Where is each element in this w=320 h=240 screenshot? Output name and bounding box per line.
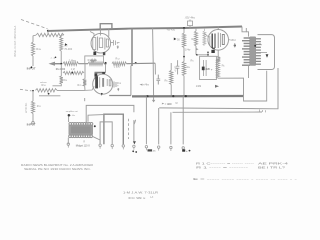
svg-text:4 MF.: 4 MF.	[175, 65, 178, 71]
svg-text:1-M J.A.W. 7-31LR: 1-M J.A.W. 7-31LR	[123, 190, 159, 194]
label 1/2M with arrow	[196, 85, 219, 88]
mark dark at post 9	[182, 149, 190, 153]
transformer T1 power winding body	[69, 125, 94, 136]
svg-text:INPUT: INPUT	[27, 123, 36, 127]
svg-text:+: +	[186, 149, 188, 153]
vertical text margin note (upper left)	[14, 25, 17, 57]
terminal pins below	[68, 145, 183, 151]
node L	[185, 95, 187, 97]
wire stage2 frame right	[130, 66, 132, 96]
svg-text:BE I TR L?: BE I TR L?	[258, 165, 286, 169]
mark dark pair at post 5	[132, 150, 137, 153]
node C tap on R10 output	[48, 93, 50, 95]
svg-text:1/4w: 1/4w	[185, 48, 190, 51]
vertical text note beside R11	[25, 102, 28, 113]
label Sp	[259, 43, 263, 46]
wire second input drop	[32, 91, 34, 101]
wire stub node A to grid resistor	[47, 31, 49, 35]
resistor R24 below bus	[60, 64, 63, 84]
wire V2 grid lead	[85, 87, 94, 91]
resistor R15 on return bus	[112, 62, 127, 66]
transformer T1 secondary loops (bottom)	[69, 135, 93, 138]
wire T1 bottom right lead	[92, 136, 100, 144]
node M primary dot	[94, 125, 96, 127]
wire plate to output transformer	[242, 27, 249, 37]
block dark V2 top cap	[102, 72, 105, 74]
wire chain to ground bus	[183, 76, 185, 96]
wire T2 bottom lead	[248, 66, 250, 78]
node J	[146, 95, 148, 97]
ground chassis at V1 cathode	[117, 46, 119, 50]
resistor R14 on return bus	[88, 62, 104, 66]
node I secondary tap	[254, 45, 256, 47]
label 110V line	[76, 144, 91, 147]
wire screen feed vertical	[153, 28, 154, 96]
wire R21 bottom	[196, 46, 198, 56]
wire V1 grid from grid cap	[90, 32, 94, 37]
svg-text:1 M: 1 M	[71, 69, 75, 71]
wire T1 top-right lead over to post 5	[86, 105, 134, 123]
svg-text:PANEL #1 DET. 1930 SCALA: PANEL #1 DET. 1930 SCALA	[14, 25, 17, 57]
wire bias link	[197, 52, 209, 56]
wire T1 bottom left lead	[67, 138, 69, 144]
label R24	[63, 79, 68, 82]
wire return bus right segment	[127, 62, 156, 65]
wire V1 cathode lead to bypass	[111, 42, 114, 44]
tube V3 plate top lead	[217, 26, 219, 29]
wire V2 grid post	[94, 72, 96, 79]
label arrow 50	[174, 38, 181, 42]
resistor R7 input shunt (vertical, left)	[31, 42, 34, 56]
parts list row 1	[196, 161, 289, 165]
svg-text:FC 99 x: FC 99 x	[128, 196, 146, 200]
wire R10 to stage 2	[57, 89, 85, 91]
node E2 plate feed junction	[105, 62, 107, 64]
wire U-link posts 2-3	[100, 122, 112, 144]
label +B 450	[167, 28, 176, 32]
terminal posts strip	[67, 143, 184, 149]
label 1/4w	[185, 48, 199, 51]
mark dark at post 6	[148, 149, 156, 152]
arrow dark at post 5	[133, 141, 136, 144]
transformer T2 primary teeth (left)	[242, 38, 250, 65]
tick marks on output line	[260, 110, 266, 113]
wire B+ bus (thick, top)	[48, 27, 242, 31]
vacuum tube V2 envelope	[93, 74, 113, 94]
svg-text:at 500 KC.: at 500 KC.	[25, 102, 28, 113]
node F	[135, 62, 137, 64]
svg-text:M: M	[176, 102, 178, 105]
svg-text:Midget 110 V.: Midget 110 V.	[76, 144, 91, 147]
resistor R24 bias (small, under V3)	[217, 56, 220, 62]
resistor R22 (light, next)	[203, 28, 206, 46]
tube V3 grid entry	[205, 34, 209, 37]
label 4MF rotated	[175, 65, 178, 71]
svg-text:2 Meg.: 2 Meg.	[69, 59, 77, 62]
resistor R6 bleeder (vertical mid)	[170, 63, 173, 96]
label MFD	[229, 39, 236, 42]
tube V2 internal dark cathode block	[95, 74, 98, 89]
wire grid network drop	[84, 64, 86, 91]
wire ground bus (thick)	[132, 95, 244, 98]
svg-text:L 300: L 300	[114, 66, 121, 69]
label E 400	[162, 102, 172, 106]
svg-text:+: +	[117, 41, 119, 45]
svg-text:+B 450: +B 450	[167, 28, 176, 32]
node D on return bus	[60, 63, 62, 65]
svg-text:h. Hv.: h. Hv.	[70, 115, 76, 117]
wire V2 bottom lead	[101, 93, 103, 96]
wire return bus drop to ground bus	[154, 63, 156, 74]
capacitor C10 electrolytic can (boxed)	[200, 56, 217, 79]
tube V1 base dark pins	[93, 52, 105, 56]
label +/4 kv with arrow	[140, 83, 150, 86]
label R12 above	[116, 57, 121, 60]
svg-text:1/2M: 1/2M	[196, 85, 202, 88]
label R6	[165, 79, 169, 83]
label INPUT terminal 1	[27, 66, 36, 70]
node E	[104, 63, 106, 65]
wire stub above ladder	[84, 98, 86, 101]
wire dashed lead second input	[20, 89, 32, 91]
wire to input post 1	[32, 56, 34, 66]
svg-text:+/4kv: +/4kv	[143, 83, 150, 86]
svg-text:MFd: MFd	[231, 39, 237, 42]
label R under transformer	[83, 141, 85, 143]
parts list row 2	[196, 165, 286, 169]
title block center line 1	[123, 190, 159, 194]
svg-text:⊢ ≈ 400: ⊢ ≈ 400	[162, 102, 172, 106]
label 1 M	[71, 69, 75, 71]
wire ground bus up to speaker return	[218, 78, 244, 96]
node H below MFD	[234, 43, 236, 48]
resistor R16 in small frame below V1	[85, 56, 104, 64]
wire return bus segment	[79, 63, 89, 65]
label 2 Meg	[69, 59, 77, 62]
vacuum tube V1 envelope	[91, 33, 111, 53]
transformer T2 secondary teeth (right)	[256, 39, 261, 64]
capacitor C6 cathode bypass of V2	[114, 82, 122, 89]
transformer T1 primary loops (top)	[69, 123, 93, 126]
capacitor C9 4MF filter (left of chain)	[176, 60, 180, 74]
resistor R25 grid stopper of V2 (vertical)	[83, 79, 86, 87]
svg-text:+: +	[211, 67, 213, 71]
resistor R21 bias bleeder	[194, 28, 197, 46]
wire lower parallel lead	[39, 95, 60, 97]
wire output line 1	[159, 68, 278, 109]
tube V3 base marks	[211, 50, 214, 53]
wire chain mid	[183, 48, 185, 62]
wire output line 2	[173, 111, 263, 113]
label L 300	[114, 66, 121, 69]
label R25	[78, 84, 84, 87]
wire T1 lead gap filler	[85, 122, 87, 125]
svg-text:SERIAL PE NO 1930 RADIO NE: SERIAL PE NO 1930 RADIO NEWS INC.	[24, 167, 91, 171]
wire secondary loop to voice coil	[258, 35, 275, 70]
wire R8 down to grid bus	[60, 51, 62, 64]
wire R24 out to volume lead	[53, 84, 62, 86]
svg-text:volume: volume	[40, 82, 48, 84]
tube V3 internal grid and plate	[210, 33, 225, 49]
switch S1 jog in post-5 lead	[134, 120, 136, 125]
wire speaker return U	[244, 71, 267, 101]
label Rp	[192, 37, 196, 41]
svg-text:L/t: L/t	[150, 195, 153, 199]
wire dashed shielded lead from pickup (top-left)	[21, 20, 48, 29]
wire secondary inner tap	[256, 51, 267, 53]
label 4MF + inside can	[202, 67, 213, 72]
terminal input post 2	[32, 122, 35, 125]
node G B+ bus to dropping chain	[183, 27, 185, 29]
tube V1 internal electrodes	[93, 37, 109, 51]
tube V3 internal filament (dark)	[212, 34, 215, 49]
wire shield dashed divider	[128, 119, 130, 139]
capacitor C5 small coupling mark	[51, 57, 57, 60]
resistor R23 output bleeder (vertical)	[216, 59, 219, 78]
wire V3 cathode drop	[217, 50, 219, 56]
label Rg 70000	[64, 43, 72, 51]
vacuum tube V3 output envelope	[208, 30, 229, 51]
wire T1 third top lead	[88, 115, 104, 122]
connector arrow left end of return bus	[49, 62, 62, 66]
resistor R8 plate feed of V1 (vertical at shield wall)	[60, 35, 64, 51]
resistor R19 dropping (vertical upper)	[182, 28, 185, 47]
wire T1 lead up-left with dark bead	[68, 114, 71, 122]
resistor R26 mixer (horizontal)	[63, 71, 84, 74]
tube V1 screen lead from bus	[108, 29, 110, 37]
label Rk	[222, 63, 226, 67]
node K	[172, 95, 174, 97]
label M mark	[176, 102, 178, 105]
ground chassis at V2 cathode	[117, 88, 119, 91]
tube V2 internal electrodes	[100, 77, 111, 87]
label R7	[36, 47, 41, 51]
wire drop to post 6	[145, 96, 147, 144]
wire stage2 frame bottom	[109, 95, 131, 97]
wire V2 plate tie (thick)	[95, 72, 106, 74]
arrow voice-coil connection	[266, 54, 269, 58]
resistor R9 series grid resistor (top input)	[33, 33, 64, 36]
resistor R13 2 Meg on return bus	[63, 62, 79, 66]
svg-text:.05/ 4kv: .05/ 4kv	[185, 15, 196, 19]
svg-text:< .1: < .1	[51, 57, 56, 60]
label above transformer rows	[66, 110, 78, 117]
wire to input post 2	[32, 114, 34, 122]
label R11	[37, 104, 42, 108]
node A junction of shield lead and B+ bus	[47, 30, 49, 32]
title block center line 2	[128, 196, 146, 200]
wire heater pair to posts 3-4	[104, 114, 123, 144]
caption blueprint line 1	[21, 163, 94, 167]
tube V1 plate lead from bus	[99, 29, 101, 36]
capacitor C4 cathode bypass of V1	[114, 40, 120, 46]
label INPUT terminal 2	[27, 123, 36, 127]
mark L/t note	[150, 195, 153, 199]
parts list row 3	[193, 177, 297, 181]
transformer T2 winding body	[249, 37, 256, 66]
resistor R20 dropping (vertical lower)	[182, 62, 185, 76]
label Rg 20000 under bus	[56, 68, 66, 71]
svg-text:amplifier out: amplifier out	[66, 110, 78, 113]
caption blueprint line 2	[24, 167, 91, 171]
svg-text:R 1 ----- = --------: R 1 ----- = --------	[196, 165, 248, 169]
svg-text:R25→: R25→	[78, 84, 84, 87]
node R26 tap	[71, 72, 73, 74]
capacitor C8 .05/4kv at top	[185, 15, 196, 28]
wire bus raised jog over V1	[100, 24, 112, 29]
wire B+ branch vertical (thick)	[131, 29, 133, 67]
resistor R11 shunt (vertical)	[31, 101, 34, 114]
wire drop to post 7	[158, 108, 160, 144]
wire input left drop	[32, 36, 34, 42]
svg-text:Jm: Jm	[153, 151, 156, 153]
label Rd	[187, 65, 191, 69]
resistor R10 series (second input)	[36, 89, 58, 92]
label R5	[191, 58, 195, 62]
wire drop to post 5 lower	[133, 120, 135, 141]
label R10	[40, 82, 48, 87]
capacitor C7 bypass beside return drop	[156, 75, 160, 85]
ground chassis main	[152, 98, 155, 103]
wire V2 feed drop	[105, 64, 107, 73]
node B second input junction	[32, 90, 34, 92]
svg-text:R9 2000: R9 2000	[56, 68, 66, 71]
wire drop to post 8	[170, 112, 172, 144]
svg-text:70-000: 70-000	[64, 48, 72, 51]
wire drop to post 9	[182, 96, 184, 144]
svg-text:E = ----- ----- ----- - -: E = ----- ----- ----- - ----- -- ---- - …	[193, 177, 297, 181]
